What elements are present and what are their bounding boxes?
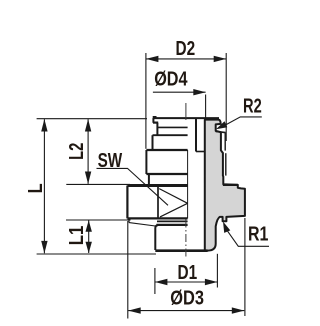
svg-text:ØD4: ØD4 — [154, 67, 188, 90]
svg-text:L1: L1 — [64, 226, 87, 246]
svg-text:L: L — [23, 183, 46, 193]
svg-text:D1: D1 — [178, 261, 198, 284]
svg-text:R1: R1 — [248, 222, 268, 245]
svg-text:R2: R2 — [243, 94, 262, 117]
svg-text:L2: L2 — [65, 143, 88, 160]
svg-text:ØD3: ØD3 — [170, 286, 204, 309]
svg-text:D2: D2 — [176, 37, 196, 60]
svg-text:SW: SW — [98, 149, 123, 172]
